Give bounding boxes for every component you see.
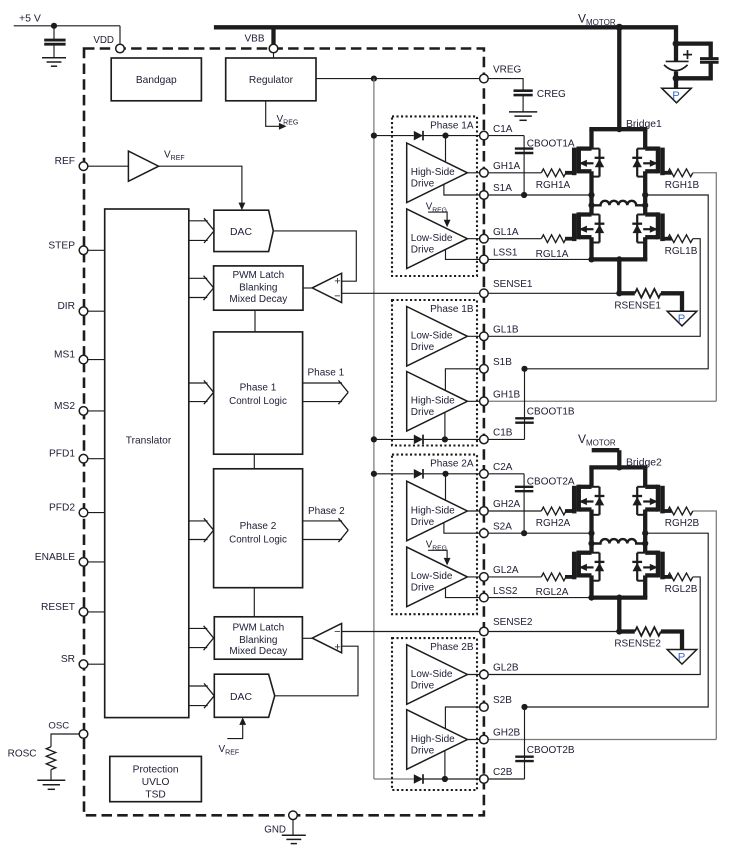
svg-text:Low-Side: Low-Side [411,331,453,342]
svg-text:C2A: C2A [493,462,513,473]
svg-text:RGL2B: RGL2B [665,584,698,595]
svg-text:Drive: Drive [411,179,435,190]
svg-text:Low-Side: Low-Side [411,571,453,582]
svg-text:Control Logic: Control Logic [229,535,287,546]
svg-text:PFD2: PFD2 [49,503,75,514]
svg-text:High-Side: High-Side [411,167,455,178]
svg-text:Drive: Drive [411,583,435,594]
svg-text:GL2B: GL2B [493,663,519,674]
svg-text:C1A: C1A [493,124,513,135]
svg-text:Phase 1: Phase 1 [240,383,277,394]
svg-text:−: − [334,626,340,638]
svg-text:Bridge1: Bridge1 [626,119,662,130]
svg-text:LSS2: LSS2 [493,586,518,597]
svg-text:TSD: TSD [145,790,165,801]
svg-text:REF: REF [55,156,75,167]
svg-text:P: P [678,313,686,325]
svg-text:Regulator: Regulator [249,75,294,86]
svg-text:Bridge2: Bridge2 [626,457,662,468]
svg-text:P: P [678,651,686,663]
svg-text:GH1A: GH1A [493,161,521,172]
svg-text:GH2A: GH2A [493,499,521,510]
svg-text:C1B: C1B [493,428,513,439]
svg-text:RSENSE1: RSENSE1 [614,301,661,312]
svg-text:+5 V: +5 V [19,13,41,25]
svg-text:VBB: VBB [244,34,264,45]
svg-text:Control Logic: Control Logic [229,396,287,407]
svg-text:GH2B: GH2B [493,728,521,739]
svg-text:Drive: Drive [411,680,435,691]
svg-text:SENSE1: SENSE1 [493,279,533,290]
svg-text:Phase 2: Phase 2 [240,521,277,532]
svg-text:UVLO: UVLO [142,777,170,788]
svg-text:CBOOT2A: CBOOT2A [527,477,575,488]
svg-text:RGL1B: RGL1B [665,246,698,257]
svg-text:Phase 2B: Phase 2B [430,642,474,653]
svg-text:+: + [334,642,340,654]
svg-text:PFD1: PFD1 [49,449,75,460]
svg-text:−: − [334,290,340,302]
svg-text:Phase 2A: Phase 2A [430,459,474,470]
svg-text:Blanking: Blanking [239,282,277,293]
svg-text:P: P [672,90,680,102]
svg-text:Protection: Protection [133,765,179,776]
svg-text:Blanking: Blanking [239,635,277,646]
svg-text:MS2: MS2 [54,401,75,412]
svg-text:RGL1A: RGL1A [536,249,569,260]
svg-text:RSENSE2: RSENSE2 [614,639,661,650]
svg-text:High-Side: High-Side [411,734,455,745]
svg-text:Translator: Translator [126,436,172,447]
svg-text:DIR: DIR [57,301,75,312]
svg-text:Bandgap: Bandgap [136,75,177,86]
svg-text:GL1B: GL1B [493,325,519,336]
svg-text:Mixed Decay: Mixed Decay [229,294,287,305]
svg-text:GL2A: GL2A [493,565,519,576]
svg-text:S1B: S1B [493,357,512,368]
svg-text:OSC: OSC [48,721,69,732]
svg-text:VDD: VDD [93,35,114,46]
svg-text:CBOOT2B: CBOOT2B [527,745,575,756]
svg-text:S2B: S2B [493,695,512,706]
svg-text:RGH2A: RGH2A [536,518,571,529]
svg-text:Low-Side: Low-Side [411,669,453,680]
svg-text:RGL2A: RGL2A [536,587,569,598]
svg-text:High-Side: High-Side [411,505,455,516]
svg-text:Phase 1: Phase 1 [307,368,344,379]
svg-text:RGH1A: RGH1A [536,180,571,191]
svg-text:Phase 1A: Phase 1A [430,121,474,132]
svg-text:STEP: STEP [48,240,75,251]
svg-text:RESET: RESET [41,602,75,613]
svg-text:DAC: DAC [230,692,252,703]
svg-text:Mixed Decay: Mixed Decay [229,646,287,657]
svg-text:PWM Latch: PWM Latch [232,623,284,634]
svg-text:Phase 2: Phase 2 [308,506,345,517]
svg-text:CBOOT1A: CBOOT1A [527,139,575,150]
svg-text:GND: GND [264,825,286,836]
svg-text:ROSC: ROSC [8,749,37,760]
svg-text:SENSE2: SENSE2 [493,617,533,628]
svg-text:C2B: C2B [493,767,513,778]
svg-text:SR: SR [61,654,75,665]
svg-text:ENABLE: ENABLE [35,552,75,563]
svg-text:RGH1B: RGH1B [665,180,700,191]
svg-text:Drive: Drive [411,245,435,256]
svg-text:Drive: Drive [411,517,435,528]
svg-text:+: + [334,275,340,287]
svg-text:GL1A: GL1A [493,227,519,238]
svg-text:S1A: S1A [493,183,512,194]
svg-text:RGH2B: RGH2B [665,518,700,529]
svg-text:Low-Side: Low-Side [411,233,453,244]
svg-text:VREG: VREG [493,64,522,75]
svg-text:Drive: Drive [411,407,435,418]
svg-text:Phase 1B: Phase 1B [430,304,474,315]
svg-text:DAC: DAC [230,227,252,238]
svg-text:Drive: Drive [411,342,435,353]
svg-text:LSS1: LSS1 [493,248,518,259]
svg-text:CBOOT1B: CBOOT1B [527,407,575,418]
svg-text:GH1B: GH1B [493,390,521,401]
svg-text:High-Side: High-Side [411,396,455,407]
svg-text:Drive: Drive [411,745,435,756]
svg-text:S2A: S2A [493,521,512,532]
svg-text:MS1: MS1 [54,350,75,361]
svg-text:CREG: CREG [537,89,566,100]
svg-text:PWM Latch: PWM Latch [232,270,284,281]
